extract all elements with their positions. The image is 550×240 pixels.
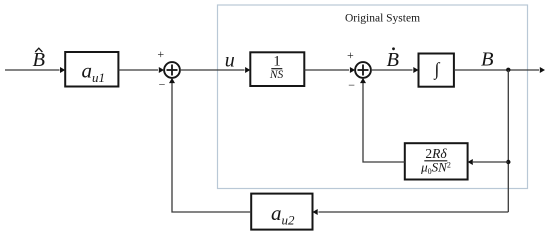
wire: S1 to block 1/NS <box>180 67 250 73</box>
wire: a_u2 to S1 (up) <box>169 78 251 212</box>
svg-text:B: B <box>481 49 494 71</box>
node label B-hat <box>33 48 46 71</box>
wire: S2 to integrator <box>371 67 419 73</box>
svg-text:Original System: Original System <box>345 13 420 25</box>
node label B-dot <box>387 47 400 71</box>
summing junction S1 <box>164 62 180 78</box>
block 1/NS <box>250 52 304 86</box>
svg-text:−: − <box>159 78 166 92</box>
svg-text:−: − <box>348 78 355 92</box>
svg-text:+: + <box>347 48 354 62</box>
feedback wire: down from output node <box>507 70 509 212</box>
block a_u1 <box>65 52 118 87</box>
svg-text:NS: NS <box>269 69 284 81</box>
block integrator U1 <box>419 54 454 87</box>
junction node dot on output line <box>506 68 510 72</box>
wire: 1/NS to summing junction S2 <box>304 67 355 73</box>
block 2R-delta over mu0 S N^2 <box>405 143 468 179</box>
wire: 2R-delta block to S2 (up) <box>360 78 405 162</box>
svg-text:1: 1 <box>273 54 281 70</box>
wire: integrator to output <box>454 67 545 73</box>
block a_u2 <box>251 194 312 230</box>
svg-text:B: B <box>33 49 46 71</box>
svg-text:+: + <box>157 47 164 61</box>
svg-text:u: u <box>225 50 235 72</box>
wire: bottom feedback to a_u2 <box>313 209 509 215</box>
summing junction S2 <box>355 62 371 78</box>
svg-text:μ0SN2: μ0SN2 <box>420 159 451 176</box>
junction node dot at 2R-delta branch <box>506 160 510 164</box>
wire: node into 2R-delta block <box>468 159 509 165</box>
svg-text:B: B <box>387 49 400 71</box>
Original System boundary box <box>218 5 528 189</box>
wire: input to a_u1 <box>5 67 65 73</box>
wire: a_u1 to summing junction S1 <box>118 67 164 73</box>
